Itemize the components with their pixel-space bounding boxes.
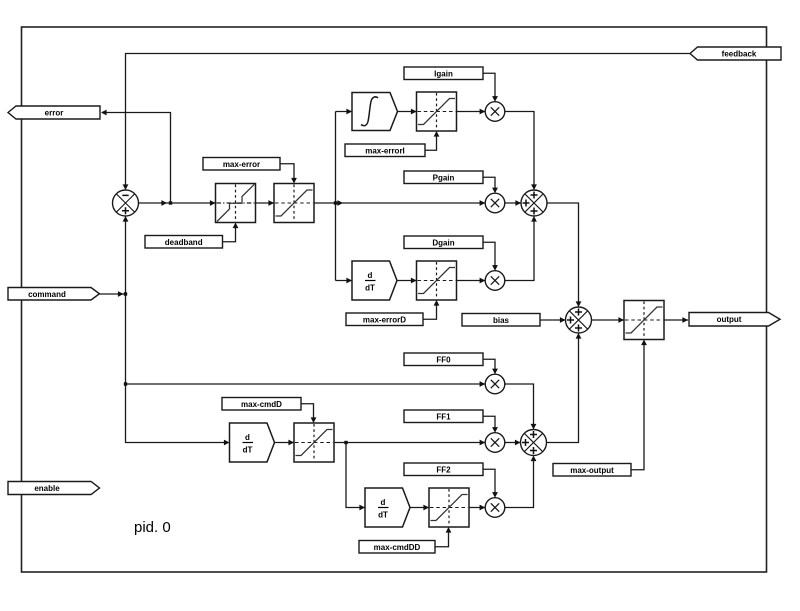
arrow into I-multiplier [480, 109, 486, 115]
arrow into D-multiplier [480, 278, 486, 284]
arrow into output tag [682, 317, 688, 323]
arrow max-error into limiter top [291, 178, 297, 184]
arrow into FF2-multiplier [480, 505, 486, 511]
arrow FF1 label into multiplier [492, 427, 498, 433]
arrow into FF-sum bottom [531, 456, 537, 462]
arrow into command derivative [224, 440, 230, 446]
wire error tap [102, 113, 171, 204]
wire FF0 label connector [483, 359, 495, 372]
arrow into output limiter [618, 317, 624, 323]
multiplier D [485, 271, 505, 291]
svg-text:Igain: Igain [434, 70, 453, 79]
wire FF0-multiplier to FF-sum top [505, 384, 534, 428]
wire D-multiplier to sum2 bottom [505, 218, 534, 281]
wire max-cmdDD connector [435, 529, 449, 547]
arrow bias into sum3 [560, 317, 566, 323]
wire FF2-derivative to FF2-limit [410, 507, 429, 509]
arrow into FF2 derivative [359, 505, 365, 511]
svg-text:deadband: deadband [165, 238, 203, 247]
svg-text:Pgain: Pgain [433, 174, 455, 183]
svg-text:FF0: FF0 [436, 356, 451, 365]
arrow into FF-sum top [531, 424, 537, 430]
svg-text:FF1: FF1 [436, 413, 451, 422]
output limiter [624, 301, 664, 340]
wire cmd-limit to FF1-multiplier [334, 442, 486, 444]
label box max-error [203, 158, 280, 171]
svg-text:max-errorI: max-errorI [365, 147, 405, 156]
label box FF1 [404, 410, 483, 423]
summing junction FF-sum [521, 430, 547, 456]
arrow FF2 label into multiplier [492, 492, 498, 498]
arrow into command limiter [288, 440, 294, 446]
summing junction sum2 (P+I+D) [521, 190, 547, 216]
label box Igain [404, 67, 483, 80]
D-branch limiter [417, 261, 457, 300]
tag enable [8, 482, 100, 495]
tag feedback [690, 47, 781, 60]
arrow into D-limit [411, 278, 417, 284]
arrow into integrator [346, 109, 352, 115]
command derivative block d/dT [230, 423, 275, 462]
I-branch limiter [417, 92, 457, 131]
arrow on sum1 output [161, 200, 167, 206]
wire I/D branch vertical [335, 112, 337, 281]
arrow into sum3 top [576, 301, 582, 307]
arrow into I-limit [411, 109, 417, 115]
arrow after branch junction [337, 200, 343, 206]
label box max-cmdD [222, 398, 301, 411]
limiter after deadband [274, 184, 314, 223]
wire I-limit to I-multiplier [457, 111, 486, 113]
junction dot FF0 branch [124, 382, 127, 385]
wire sum2 to sum3 top [547, 203, 579, 306]
arrow max-cmdDD into limiter bottom [446, 527, 452, 533]
multiplier P [485, 193, 505, 213]
arrow into FF1-multiplier [480, 440, 486, 446]
label box FF0 [404, 353, 483, 366]
wire command net vertical [126, 218, 228, 443]
wire max-errorD connector [423, 302, 437, 319]
arrow max-errorI into limiter bottom [434, 131, 440, 137]
svg-text:pid. 0: pid. 0 [134, 519, 171, 536]
svg-text:Dgain: Dgain [432, 239, 454, 248]
wire FF0 row [126, 383, 486, 385]
wire FF2 label connector [483, 469, 495, 496]
multiplier FF1 [485, 433, 505, 453]
label box max-errorD [346, 313, 423, 326]
svg-text:error: error [45, 108, 64, 117]
label box bias [462, 314, 540, 327]
command limiter [294, 423, 334, 462]
arrow into sum1 top [123, 184, 129, 190]
wire command tag to vertical [100, 293, 126, 295]
arrow into sum2 left [515, 200, 521, 206]
arrow into limiter1 [268, 200, 274, 206]
junction dot FF2 branch [344, 441, 347, 444]
wire FF1-multiplier to FF-sum left [505, 442, 521, 444]
wire max-output connector [631, 342, 644, 470]
wire I-multiplier to sum2 top [505, 112, 534, 189]
svg-text:max-cmdDD: max-cmdDD [374, 543, 421, 552]
arrow command into vertical [118, 291, 124, 297]
wire feedback net [126, 54, 691, 189]
svg-text:command: command [28, 290, 66, 299]
arrow deadband into block [233, 223, 239, 229]
label box Pgain [404, 171, 483, 184]
arrow max-cmdD into limiter top [311, 417, 317, 423]
svg-text:max-cmdD: max-cmdD [241, 400, 282, 409]
multiplier FF2 [485, 498, 505, 518]
label box max-errorI [345, 144, 425, 157]
wire bias to sum3 [540, 319, 566, 321]
wire branch to derivative [336, 280, 353, 282]
junction dot error tap [169, 201, 172, 204]
wire limit1 to P-multiplier [314, 202, 486, 204]
wire sum3 to output limiter [592, 319, 625, 321]
wire integrator to I-limit [398, 111, 417, 113]
summing junction sum3 (bias+PID+FF) [566, 307, 592, 333]
arrow into sum2 top [531, 184, 537, 190]
wire D-limit to D-multiplier [457, 280, 486, 282]
arrow into sum1 bottom [123, 216, 129, 222]
wire Igain connector [483, 73, 495, 100]
wire sum1 output [139, 202, 216, 204]
label box Dgain [404, 236, 483, 249]
label box max-cmdDD [359, 541, 435, 554]
wire FF-sum to sum3 bottom [547, 335, 579, 443]
arrow Igain into I-multiplier [492, 96, 498, 102]
arrow into FF2 limiter [423, 505, 429, 511]
wire FF2-limit to FF2-multiplier [469, 507, 486, 509]
label box max-output [553, 464, 631, 477]
arrow max-errorD into limiter bottom [434, 300, 440, 306]
wire Dgain connector [483, 242, 495, 269]
summing junction sum1 (feedback minus command) [113, 190, 139, 216]
tag command [8, 288, 100, 301]
svg-text:FF2: FF2 [436, 466, 451, 475]
junction dot I/D branch [334, 201, 337, 204]
arrow into sum3 bottom [576, 333, 582, 339]
arrow max-output into limiter [641, 340, 647, 346]
arrow into derivative [346, 278, 352, 284]
wire output limiter to output tag [664, 319, 688, 321]
svg-text:enable: enable [34, 484, 60, 493]
arrow FF0 label into multiplier [492, 369, 498, 375]
wire FF2 branch [346, 443, 365, 508]
multiplier I [485, 102, 505, 122]
svg-text:max-error: max-error [223, 160, 260, 169]
arrow into P-multiplier [480, 200, 486, 206]
svg-text:max-errorD: max-errorD [363, 316, 406, 325]
wire derivative to D-limit [398, 280, 417, 282]
wire max-error connector [280, 164, 294, 182]
arrow into deadband block [210, 200, 216, 206]
deadband block [216, 184, 256, 223]
wire P-multiplier to sum2 left [505, 202, 521, 204]
arrow into FF0-multiplier [480, 381, 486, 387]
svg-text:bias: bias [493, 316, 510, 325]
integrator block [352, 93, 398, 131]
wire Pgain connector [483, 177, 495, 191]
wire FF1 label connector [483, 416, 495, 431]
wire cmd-derivative to cmd-limit [275, 442, 295, 444]
wire deadband connector [223, 224, 236, 242]
arrow into sum2 bottom [531, 216, 537, 222]
svg-text:output: output [717, 315, 742, 324]
arrow into FF-sum left [515, 440, 521, 446]
svg-text:feedback: feedback [722, 50, 757, 59]
derivative block d/dT [352, 261, 397, 300]
FF2 derivative block d/dT [365, 488, 410, 527]
label box FF2 [404, 463, 483, 476]
multiplier FF0 [485, 374, 505, 394]
arrow Pgain into P-multiplier [492, 188, 498, 194]
label box deadband [145, 236, 223, 249]
arrow Dgain into D-multiplier [492, 265, 498, 271]
tag output [689, 313, 780, 327]
wire max-errorI connector [425, 133, 437, 151]
junction dot command [124, 292, 127, 295]
svg-text:max-output: max-output [570, 466, 614, 475]
wire FF2-multiplier to FF-sum bottom [505, 458, 534, 508]
wire max-cmdD connector [301, 404, 314, 422]
FF2 limiter [429, 488, 469, 527]
tag error [8, 106, 100, 119]
wire branch to integrator [336, 111, 353, 113]
arrow into error tag [101, 110, 107, 116]
wire deadband to limit1 [256, 202, 275, 204]
